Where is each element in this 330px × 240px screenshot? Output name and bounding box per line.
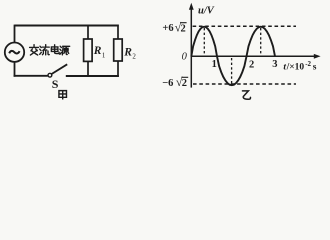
background paper [0, 0, 330, 103]
switch S blade [52, 64, 68, 74]
wire left edge upper [14, 25, 16, 43]
svg-text:R: R [93, 45, 102, 57]
svg-text:2: 2 [182, 78, 187, 89]
svg-text:1: 1 [212, 59, 217, 70]
svg-text:-2: -2 [305, 60, 311, 68]
label 交流电源 : 交 [30, 45, 39, 55]
dashed drop from first peak [203, 28, 205, 56]
switch S pivot contact [48, 73, 52, 77]
wire bottom left segment [14, 75, 48, 77]
dashed riser to trough [231, 58, 233, 84]
AC source tilde [9, 51, 19, 54]
resistor R2 box [114, 39, 123, 61]
svg-text:s: s [313, 63, 317, 73]
graph t-axis [191, 55, 316, 57]
label +6sqrt2 [162, 21, 186, 35]
svg-text:+6: +6 [162, 23, 173, 34]
wire top edge [15, 25, 119, 27]
resistor R1 bottom lead [87, 61, 89, 76]
label 交流电源 : 源 [60, 46, 70, 55]
dashed level line +6sqrt2 [193, 25, 296, 27]
resistor R1 box [84, 39, 93, 61]
wire bottom right segment [66, 75, 119, 77]
label R2 [123, 47, 136, 61]
resistor R2 bottom lead [117, 61, 119, 77]
AC source G1 circle [5, 43, 24, 62]
sine curve u(t) [191, 27, 275, 85]
svg-text:2: 2 [132, 53, 136, 61]
label 甲 [59, 91, 67, 100]
svg-text:2: 2 [181, 23, 186, 34]
graph t-axis arrowhead [314, 54, 321, 59]
svg-text:R: R [123, 47, 132, 59]
label -6sqrt2 [162, 75, 188, 89]
resistor R2 branch top lead (right edge) [117, 25, 119, 39]
label 交流电源 : 流 [40, 45, 50, 55]
resistor R1 branch top lead [87, 26, 89, 40]
graph u-axis [190, 6, 192, 88]
label 交流电源 : 电 [51, 45, 59, 54]
dashed level line -6sqrt2 [193, 83, 296, 85]
svg-text:/×10: /×10 [286, 63, 305, 73]
svg-text:−6: −6 [162, 78, 173, 89]
label R1 [93, 45, 106, 59]
svg-text:0: 0 [182, 51, 188, 62]
wire left edge lower [14, 62, 16, 77]
svg-text:3: 3 [272, 59, 277, 70]
svg-text:u/V: u/V [198, 5, 215, 16]
svg-text:S: S [52, 77, 59, 91]
label t/x10^-2 s [283, 60, 316, 72]
svg-text:2: 2 [249, 60, 254, 71]
graph u-axis arrowhead [189, 3, 194, 10]
svg-text:1: 1 [102, 51, 106, 59]
dashed drop from second peak [260, 28, 262, 56]
label 乙 [242, 91, 250, 99]
